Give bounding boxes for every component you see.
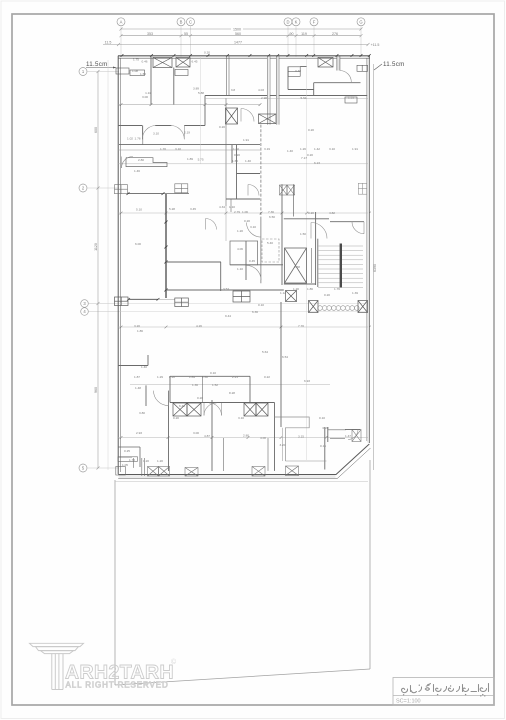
- balcony steps lower center: [275, 417, 327, 461]
- svg-text:1.50: 1.50: [300, 232, 306, 236]
- svg-text:0.45: 0.45: [249, 259, 255, 263]
- svg-text:4.06: 4.06: [237, 247, 243, 251]
- small storage boxes bottom-left: [116, 457, 145, 476]
- exterior wall bottom with chamfer: [118, 444, 370, 478]
- svg-text:0.46: 0.46: [141, 60, 147, 64]
- scattered dimension texts lower: [122, 303, 351, 467]
- svg-text:1.05: 1.05: [122, 463, 128, 467]
- svg-text:0.20: 0.20: [322, 426, 328, 430]
- 11.5cm callout left: [86, 61, 116, 69]
- site boundary left: [114, 480, 116, 685]
- svg-text:2.19: 2.19: [184, 131, 190, 135]
- svg-text:3.10: 3.10: [329, 147, 335, 151]
- svg-text:3.10: 3.10: [153, 132, 159, 136]
- svg-text:1.60: 1.60: [202, 375, 208, 379]
- svg-text:1.46: 1.46: [134, 169, 140, 173]
- svg-text:353: 353: [147, 32, 153, 36]
- svg-text:1500: 1500: [233, 27, 241, 31]
- bottom row columns: [148, 430, 362, 477]
- duct shaft dashed box: [262, 239, 279, 262]
- svg-text:6.48: 6.48: [179, 404, 185, 408]
- svg-text:0.20: 0.20: [169, 375, 175, 379]
- svg-text:5.64: 5.64: [262, 350, 268, 354]
- small wall boxes below top-left columns: [116, 65, 368, 103]
- stair treads: [318, 246, 363, 287]
- svg-text:6.50: 6.50: [269, 215, 275, 219]
- svg-text:6.00: 6.00: [135, 242, 141, 246]
- svg-text:11.5cm: 11.5cm: [86, 61, 108, 68]
- title block scale text: [396, 699, 421, 705]
- svg-text:1.91: 1.91: [352, 147, 358, 151]
- svg-text:1.40: 1.40: [245, 159, 251, 163]
- site boundary right: [369, 460, 371, 669]
- grid extension lines from bubbles: [121, 26, 361, 57]
- dimension ticks along mid dim lines: [120, 103, 371, 439]
- svg-text:1.70: 1.70: [129, 458, 135, 462]
- svg-text:5.40: 5.40: [267, 241, 273, 245]
- svg-text:F: F: [313, 20, 316, 25]
- svg-text:3.89: 3.89: [193, 87, 199, 91]
- interior walls upper zone: [118, 56, 369, 241]
- svg-text:0.20: 0.20: [173, 416, 179, 420]
- svg-text:1.48: 1.48: [135, 386, 141, 390]
- svg-text:1.47: 1.47: [345, 434, 351, 438]
- left vertical dimension line: [94, 70, 100, 470]
- svg-text:3.10: 3.10: [250, 225, 256, 229]
- svg-text:4.82: 4.82: [329, 211, 335, 215]
- svg-text:+11.5: +11.5: [371, 43, 380, 47]
- svg-text:1.20: 1.20: [293, 287, 299, 291]
- svg-text:3.30: 3.30: [295, 69, 301, 73]
- grid bubbles top A B C D K F G: [117, 18, 365, 26]
- svg-text:0.20: 0.20: [308, 211, 314, 215]
- row3 dim segment with arrows: [127, 298, 175, 301]
- svg-text:1.10: 1.10: [237, 267, 243, 271]
- lower small room walls left: [118, 447, 140, 468]
- svg-text:3.10: 3.10: [175, 147, 181, 151]
- svg-text:2.98: 2.98: [261, 96, 267, 100]
- svg-text:11.5cm: 11.5cm: [383, 61, 405, 68]
- svg-text:1.42: 1.42: [314, 147, 320, 151]
- grid lines rows 3 and 4 across plan: [119, 304, 368, 312]
- window box on right wall: [358, 183, 366, 194]
- svg-text:1.87: 1.87: [134, 375, 140, 379]
- right vertical dimension line 6390: [373, 64, 377, 470]
- svg-text:1.36: 1.36: [192, 383, 198, 387]
- svg-text:4.26: 4.26: [196, 324, 202, 328]
- row3-4 columns: [115, 291, 368, 313]
- top dimension row 2 segments: [120, 32, 363, 37]
- svg-text:0.20: 0.20: [234, 153, 240, 157]
- svg-text:2.38: 2.38: [294, 265, 300, 269]
- scattered dimension texts middle: [134, 137, 358, 298]
- mid columns D row: [226, 108, 277, 124]
- svg-text:3.19: 3.19: [264, 147, 270, 151]
- svg-text:560: 560: [235, 32, 241, 36]
- svg-text:1.76: 1.76: [334, 287, 340, 291]
- svg-text:3.00: 3.00: [142, 95, 148, 99]
- long horizontal dimension strings across plan: [118, 99, 368, 438]
- pantry shaft boxes: [280, 185, 295, 195]
- svg-text:1.08: 1.08: [132, 69, 138, 73]
- stair handrail bar: [340, 244, 342, 288]
- row2 window columns: [115, 184, 188, 194]
- svg-text:0.10: 0.10: [258, 303, 264, 307]
- svg-text:0.20: 0.20: [308, 128, 314, 132]
- svg-text:1.40: 1.40: [141, 365, 147, 369]
- row2 dim segment with arrows: [127, 192, 190, 195]
- svg-text:B: B: [180, 20, 183, 25]
- svg-text:2.79: 2.79: [234, 210, 240, 214]
- svg-text:2.93: 2.93: [136, 431, 142, 435]
- dimension ticks along top wall: [121, 54, 371, 57]
- svg-text:11.5: 11.5: [105, 41, 112, 45]
- svg-text:D: D: [286, 20, 289, 25]
- svg-text:90: 90: [290, 32, 294, 36]
- exterior wall left: [118, 56, 120, 474]
- svg-text:0.25: 0.25: [124, 449, 130, 453]
- svg-text:1.40: 1.40: [287, 149, 293, 153]
- svg-text:1.89: 1.89: [189, 375, 195, 379]
- svg-text:0.20: 0.20: [204, 51, 210, 55]
- bathroom columns pair mid-lower: [173, 403, 268, 416]
- right wall gray poche: [268, 57, 370, 443]
- svg-text:1.20: 1.20: [157, 459, 163, 463]
- svg-text:4.87: 4.87: [204, 434, 210, 438]
- svg-text:1.86: 1.86: [307, 287, 313, 291]
- svg-text:276: 276: [332, 32, 338, 36]
- svg-text:4.00: 4.00: [260, 436, 266, 440]
- svg-text:2.80: 2.80: [243, 434, 249, 438]
- svg-text:3.8: 3.8: [231, 88, 236, 92]
- svg-text:1.78: 1.78: [134, 137, 140, 141]
- top dimension row 3 1477: [103, 41, 379, 47]
- svg-text:6390: 6390: [373, 264, 377, 272]
- svg-text:119: 119: [301, 32, 307, 36]
- svg-text:600: 600: [94, 127, 98, 133]
- svg-text:5.54: 5.54: [300, 96, 306, 100]
- svg-text:7.17: 7.17: [301, 156, 307, 160]
- svg-text:1.52: 1.52: [212, 383, 218, 387]
- svg-text:3.45: 3.45: [190, 207, 196, 211]
- svg-text:1.06: 1.06: [242, 210, 248, 214]
- svg-text:0.10: 0.10: [210, 371, 216, 375]
- svg-text:©: ©: [171, 658, 177, 666]
- svg-text:3.10: 3.10: [238, 416, 244, 420]
- svg-text:1.02: 1.02: [127, 137, 133, 141]
- left grid extension lines: [87, 72, 119, 469]
- title block box: [393, 678, 494, 706]
- svg-text:1.91: 1.91: [243, 138, 249, 142]
- svg-text:9.44: 9.44: [225, 314, 231, 318]
- exterior wall right: [367, 56, 369, 443]
- title block persian lettering drawn as strokes: [402, 684, 489, 693]
- svg-text:A: A: [120, 20, 123, 25]
- svg-text:0.10: 0.10: [319, 416, 325, 420]
- svg-text:1477: 1477: [234, 41, 242, 45]
- svg-text:0.20: 0.20: [324, 293, 330, 297]
- svg-text:1.12: 1.12: [280, 291, 286, 295]
- svg-text:6.23: 6.23: [314, 161, 320, 165]
- svg-text:6.36: 6.36: [252, 310, 258, 314]
- svg-text:960: 960: [94, 387, 98, 393]
- svg-text:6.54: 6.54: [282, 355, 288, 359]
- svg-text:6.45: 6.45: [191, 60, 197, 64]
- svg-text:1.75: 1.75: [133, 58, 139, 62]
- svg-text:3.00: 3.00: [193, 431, 199, 435]
- svg-text:1.20: 1.20: [143, 459, 149, 463]
- svg-text:1.50: 1.50: [140, 72, 146, 76]
- svg-text:5.88: 5.88: [198, 91, 204, 95]
- svg-text:0.20: 0.20: [197, 396, 203, 400]
- site boundary bottom slanted: [115, 669, 370, 685]
- svg-text:ALL RIGHT RESERVED: ALL RIGHT RESERVED: [66, 681, 169, 690]
- left grid bubbles 1 2 3 4 5: [79, 68, 88, 473]
- svg-text:5.28: 5.28: [169, 207, 175, 211]
- title block persian dots: [403, 685, 486, 697]
- logo wordmark: [65, 658, 177, 690]
- railing circles chain: [318, 306, 359, 311]
- site boundary top return: [115, 481, 368, 483]
- svg-text:7.70: 7.70: [298, 324, 304, 328]
- svg-text:0.20: 0.20: [244, 219, 250, 223]
- scattered dimension texts upper: [127, 51, 358, 158]
- interior walls mid zone: [118, 105, 329, 298]
- svg-text:4.34: 4.34: [219, 205, 225, 209]
- svg-text:1.60: 1.60: [233, 147, 239, 151]
- svg-text:0.22: 0.22: [264, 375, 270, 379]
- svg-text:1.89: 1.89: [187, 157, 193, 161]
- svg-text:5.10: 5.10: [136, 208, 142, 212]
- top row columns: [153, 58, 333, 68]
- left secondary vertical line: [107, 60, 109, 470]
- svg-text:7.36: 7.36: [268, 210, 274, 214]
- vertical dim extension line F area: [200, 56, 306, 460]
- svg-text:1120: 1120: [94, 243, 98, 251]
- svg-text:0.20: 0.20: [219, 125, 225, 129]
- door arcs: [122, 71, 365, 440]
- elevator shaft with X: [285, 248, 312, 283]
- svg-text:5.75: 5.75: [198, 158, 204, 162]
- svg-text:8.28: 8.28: [229, 391, 235, 395]
- svg-text:1.31: 1.31: [348, 96, 354, 100]
- svg-text:1.26: 1.26: [300, 147, 306, 151]
- svg-text:6.93: 6.93: [304, 379, 310, 383]
- svg-text:SC=1:100: SC=1:100: [396, 699, 421, 705]
- svg-text:4.03: 4.03: [258, 88, 264, 92]
- 11.5cm callout right: [374, 61, 405, 70]
- interior walls lower zone: [118, 302, 360, 471]
- svg-text:55: 55: [184, 32, 188, 36]
- svg-text:1.10: 1.10: [229, 205, 235, 209]
- svg-text:3.20: 3.20: [134, 324, 140, 328]
- svg-text:3.57: 3.57: [223, 287, 229, 291]
- svg-text:0.20: 0.20: [307, 153, 313, 157]
- svg-text:1.39: 1.39: [352, 291, 358, 295]
- svg-text:3.15: 3.15: [298, 435, 304, 439]
- svg-text:0.15: 0.15: [320, 444, 326, 448]
- svg-text:1.86: 1.86: [137, 329, 143, 333]
- exterior wall top: [118, 56, 370, 58]
- svg-text:3.20: 3.20: [279, 443, 285, 447]
- svg-text:1.65: 1.65: [232, 159, 238, 163]
- logo column icon: [30, 643, 84, 689]
- top dimension row 1 total 1500: [120, 27, 363, 31]
- svg-text:2.21: 2.21: [232, 375, 238, 379]
- svg-text:1.29: 1.29: [157, 375, 163, 379]
- svg-text:K: K: [295, 20, 298, 25]
- svg-text:1.20: 1.20: [237, 229, 243, 233]
- svg-text:C: C: [189, 20, 192, 25]
- svg-text:G: G: [359, 20, 362, 25]
- svg-text:1.70: 1.70: [160, 147, 166, 151]
- svg-text:2.80: 2.80: [138, 158, 144, 162]
- svg-text:3.80: 3.80: [139, 411, 145, 415]
